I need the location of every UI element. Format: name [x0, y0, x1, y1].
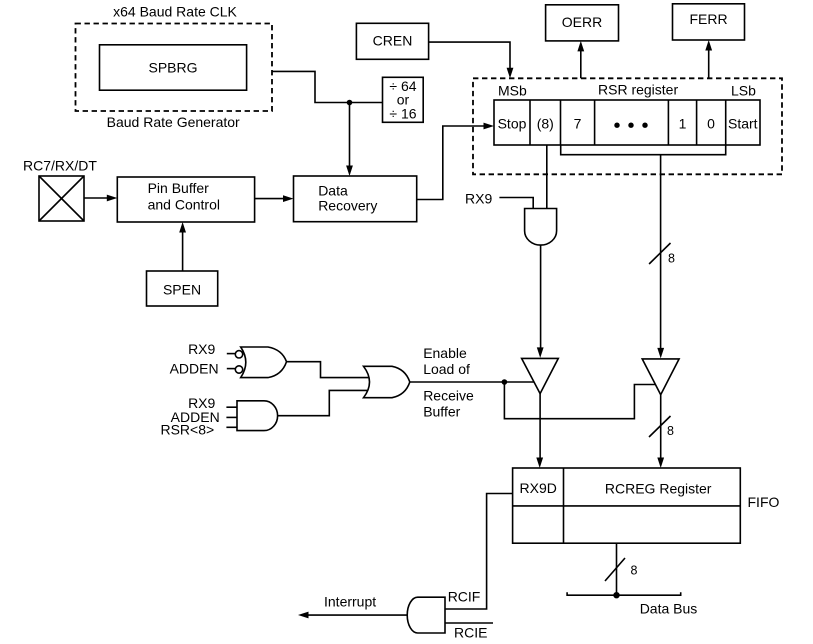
wire junction to Data Recovery	[349, 103, 351, 168]
svg-text:SPEN: SPEN	[163, 282, 201, 298]
arrow into FERR bottom	[705, 40, 712, 51]
stub ADDEN to bubble	[227, 368, 235, 370]
arrow interrupt left	[298, 612, 309, 619]
wire interrupt out	[309, 614, 408, 616]
data bus line	[567, 592, 681, 595]
wire OR output to left buffer	[410, 381, 534, 383]
svg-text:Start: Start	[728, 115, 758, 131]
svg-text:RX9D: RX9D	[520, 480, 557, 496]
wire RCIE input	[445, 622, 493, 624]
arrow into RSR dashed box top	[507, 68, 514, 79]
svg-text:FIFO: FIFO	[748, 494, 780, 510]
block OERR	[546, 5, 619, 41]
stub RSR8 to AND	[226, 426, 237, 428]
wire CREN to RSR dashed box	[429, 42, 510, 69]
bus slash upper	[649, 243, 670, 264]
arrow into Data Recovery left	[283, 195, 294, 202]
wire AND gate to left buffer	[540, 245, 542, 350]
wire enable to right buffer	[504, 382, 655, 419]
buffer triangle left	[522, 358, 559, 393]
arrow into OERR bottom	[577, 41, 584, 52]
svg-text:Interrupt: Interrupt	[324, 594, 376, 610]
bus slash lower	[605, 558, 625, 581]
wire Data Recovery to RSR register	[417, 126, 485, 200]
AND gate RX9/(8)	[525, 209, 557, 246]
svg-text:Baud Rate Generator: Baud Rate Generator	[107, 114, 240, 130]
RCREG register block	[513, 468, 741, 543]
wire SPBRG to divider	[272, 71, 383, 102]
svg-text:0: 0	[707, 115, 715, 131]
stub RX9 to AND	[226, 406, 237, 408]
wire pin pad to Pin Buffer	[84, 197, 108, 199]
wire RSR to FERR	[708, 49, 710, 78]
block divide by 64 or 16	[383, 77, 424, 122]
svg-text:CREN: CREN	[373, 32, 413, 48]
svg-text:÷ 16: ÷ 16	[389, 106, 416, 122]
svg-text:FERR: FERR	[689, 11, 727, 27]
wire RSR bus down to right buffer	[660, 155, 662, 350]
junction dot on divider wire	[347, 100, 353, 106]
OR gate with inverted inputs	[241, 347, 287, 378]
arrow into RX9D top	[536, 458, 543, 469]
wire Pin Buffer to Data Recovery	[255, 198, 285, 200]
svg-text:8: 8	[667, 424, 674, 438]
svg-text:Enable: Enable	[423, 345, 467, 361]
svg-text:RCIF: RCIF	[448, 589, 481, 605]
wire left buffer to RX9D	[539, 394, 541, 459]
svg-text:RSR<8>: RSR<8>	[160, 422, 214, 438]
wire RSR to OERR	[580, 50, 582, 78]
svg-text:Stop: Stop	[498, 115, 527, 131]
stub ADDEN to AND	[226, 416, 237, 418]
cell dots	[614, 123, 647, 128]
svg-text:Pin Buffer: Pin Buffer	[148, 180, 210, 196]
dashed box Baud Rate Generator	[76, 24, 273, 112]
svg-text:RSR register: RSR register	[598, 82, 678, 98]
svg-text:Data Bus: Data Bus	[640, 600, 698, 616]
OR gate enable	[364, 366, 410, 397]
svg-text:8: 8	[631, 564, 638, 578]
wire RX9 to AND gate	[499, 198, 533, 209]
dashed box RSR	[473, 78, 782, 174]
svg-text:ADDEN: ADDEN	[170, 360, 219, 376]
svg-text:RC7/RX/DT: RC7/RX/DT	[23, 158, 97, 174]
svg-text:(8): (8)	[537, 115, 554, 131]
wire RX9D to RCIF	[445, 494, 513, 610]
svg-text:Data: Data	[318, 182, 348, 198]
wire RSR (8) cell down to AND gate	[546, 145, 548, 209]
svg-text:MSb: MSb	[498, 83, 527, 99]
svg-text:and Control: and Control	[148, 197, 220, 213]
arrow into RSR Stop cell	[484, 123, 495, 130]
bubble on RX9 input	[235, 351, 242, 358]
svg-text:RX9: RX9	[188, 341, 215, 357]
arrow into Pin Buffer bottom	[179, 222, 186, 233]
wire NOR output to OR gate	[287, 362, 369, 378]
svg-text:RCIE: RCIE	[454, 625, 487, 641]
svg-text:Buffer: Buffer	[423, 404, 460, 420]
block CREN	[356, 23, 428, 59]
stub RX9 to bubble	[227, 353, 235, 355]
block SPBRG	[100, 45, 247, 90]
svg-text:OERR: OERR	[562, 14, 602, 30]
wire AND output to OR gate	[278, 390, 369, 415]
AND gate interrupt	[407, 597, 445, 633]
pin pad RC7 (X box)	[39, 176, 84, 221]
RSR register cells	[494, 100, 760, 145]
block Pin Buffer and Control	[117, 177, 254, 222]
arrow into left buffer top	[537, 347, 544, 358]
svg-text:7: 7	[574, 115, 582, 131]
svg-text:SPBRG: SPBRG	[148, 60, 197, 76]
bracket under RSR cells	[561, 145, 726, 155]
arrow into RCREG top	[657, 458, 664, 469]
block Data Recovery	[294, 176, 417, 222]
svg-text:Recovery: Recovery	[318, 198, 377, 214]
svg-text:x64 Baud Rate CLK: x64 Baud Rate CLK	[113, 4, 237, 20]
bus slash middle	[649, 416, 671, 437]
svg-text:1: 1	[679, 115, 687, 131]
block FERR	[673, 4, 745, 40]
svg-text:LSb: LSb	[731, 83, 756, 99]
svg-text:Receive: Receive	[423, 388, 474, 404]
svg-text:Load of: Load of	[423, 361, 470, 377]
wire RCREG to data bus	[616, 543, 618, 595]
arrow into Pin Buffer left	[107, 195, 118, 202]
wire right buffer to RCREG	[660, 395, 662, 459]
arrow into Data Recovery top	[346, 166, 353, 177]
arrow into right buffer top	[657, 348, 664, 359]
wire SPEN to Pin Buffer	[182, 231, 184, 271]
bubble on ADDEN input	[235, 366, 242, 373]
AND gate 3-input	[237, 401, 278, 431]
svg-text:8: 8	[668, 251, 675, 265]
svg-text:RX9: RX9	[465, 191, 492, 207]
buffer triangle right	[642, 359, 679, 395]
svg-text:RCREG Register: RCREG Register	[605, 480, 712, 496]
junction dot data bus	[613, 592, 619, 598]
block SPEN	[147, 271, 218, 306]
junction dot enable	[502, 379, 508, 385]
